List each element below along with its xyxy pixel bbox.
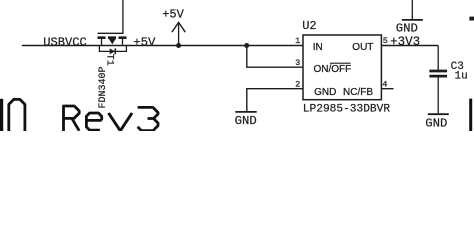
svg-text:OUT: OUT: [352, 42, 373, 53]
svg-text:+5V: +5V: [162, 7, 184, 21]
svg-text:U2: U2: [302, 19, 316, 33]
svg-text:LP2985-33DBVR: LP2985-33DBVR: [303, 103, 391, 115]
svg-text:USBVCC: USBVCC: [43, 35, 87, 49]
svg-text:GND: GND: [235, 114, 257, 128]
svg-text:GND: GND: [425, 116, 447, 130]
svg-text:FDN340P: FDN340P: [98, 66, 109, 108]
svg-text:2: 2: [295, 79, 300, 89]
svg-text:NC/FB: NC/FB: [343, 87, 373, 98]
svg-text:T1: T1: [104, 54, 115, 66]
svg-text:GND: GND: [396, 22, 418, 36]
svg-text:5: 5: [383, 36, 388, 46]
svg-text:3: 3: [295, 58, 300, 68]
svg-text:4: 4: [382, 79, 387, 89]
svg-text:ON/OFF: ON/OFF: [314, 64, 352, 75]
svg-text:+5V: +5V: [133, 35, 156, 49]
svg-text:1u: 1u: [455, 71, 468, 83]
svg-text:GND: GND: [314, 87, 336, 98]
svg-text:+3V3: +3V3: [390, 35, 420, 49]
svg-text:1: 1: [295, 36, 300, 46]
svg-text:IN: IN: [313, 42, 323, 53]
